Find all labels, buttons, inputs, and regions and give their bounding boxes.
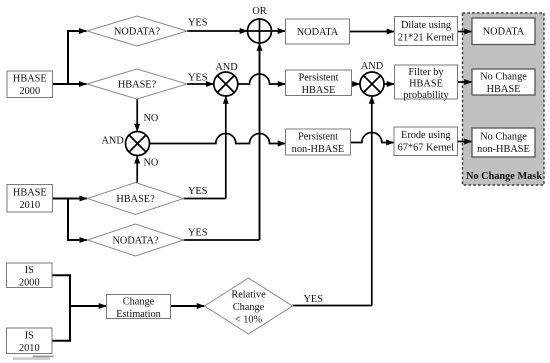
- svg-text:HBASE: HBASE: [409, 78, 443, 89]
- svg-text:non-HBASE: non-HBASE: [477, 144, 530, 155]
- svg-text:HBASE: HBASE: [13, 74, 47, 85]
- svg-text:2000: 2000: [20, 86, 41, 97]
- svg-text:< 10%: < 10%: [235, 315, 263, 326]
- svg-text:NO: NO: [144, 158, 159, 169]
- decision diamond: HBASE? (2010): [88, 183, 184, 215]
- cropped artifact below IS 2010: [13, 356, 54, 360]
- svg-text:Change: Change: [123, 296, 155, 307]
- wire: HBASE? 2010 NO up into AND junction A2: [136, 156, 138, 183]
- result box: No Change non-HBASE: [472, 128, 535, 157]
- process box: Erode using 67*67 Kernel: [394, 127, 458, 156]
- svg-text:IS: IS: [25, 265, 34, 276]
- svg-text:non-HBASE: non-HBASE: [292, 144, 345, 155]
- process box: HBASE 2010: [7, 185, 53, 213]
- wire: OR junction to NODATA box: [272, 30, 286, 32]
- svg-text:2000: 2000: [19, 277, 40, 288]
- wire: vertical from AND junction A3 down to Relative Change YES: [293, 96, 372, 305]
- svg-text:HBASE: HBASE: [13, 188, 47, 199]
- wire: NODATA? 2010 YES feeding OR junction (arrow up): [184, 43, 260, 240]
- svg-text:67*67 Kernel: 67*67 Kernel: [398, 143, 454, 154]
- svg-text:AND: AND: [101, 135, 124, 146]
- svg-text:2010: 2010: [20, 200, 41, 211]
- AND junction A1: [214, 62, 238, 96]
- svg-text:2010: 2010: [19, 343, 40, 354]
- svg-text:NODATA: NODATA: [483, 27, 525, 38]
- svg-text:YES: YES: [188, 228, 208, 239]
- svg-text:YES: YES: [188, 73, 208, 84]
- svg-text:HBASE: HBASE: [302, 85, 336, 96]
- svg-text:Dilate using: Dilate using: [401, 20, 451, 31]
- svg-text:probability: probability: [403, 90, 449, 101]
- svg-text:YES: YES: [188, 18, 208, 29]
- svg-text:21*21 Kernel: 21*21 Kernel: [398, 32, 454, 43]
- svg-text:No Change: No Change: [480, 72, 527, 83]
- wire: vertical from AND junction A1 down to HBASE? 2010 YES: [184, 96, 226, 198]
- AND junction A2: [101, 132, 149, 156]
- process box: Change Estimation: [107, 295, 171, 320]
- wire: Persistent HBASE box to AND junction A3: [352, 83, 360, 85]
- OR junction: [248, 6, 272, 43]
- result box: No Change HBASE: [472, 69, 535, 95]
- wire: Filter box to No Change HBASE box: [458, 81, 472, 83]
- wire: IS 2000 and IS 2010 merge to Change Estimation: [52, 275, 106, 341]
- svg-text:Change: Change: [233, 302, 265, 313]
- process box: NODATA: [286, 19, 350, 44]
- process box: Persistent non-HBASE: [286, 129, 351, 155]
- svg-text:NODATA?: NODATA?: [114, 27, 161, 38]
- svg-text:Filter by: Filter by: [408, 67, 444, 78]
- process box: Dilate using 21*21 Kernel: [395, 17, 458, 46]
- svg-text:NO: NO: [144, 113, 159, 124]
- wire: Dilate box to NODATA (mask) box: [458, 31, 472, 33]
- wire: AND junction A2 to Persistent non-HBASE box (hops over two verticals): [150, 134, 286, 144]
- no-change-mask gray region: [463, 13, 545, 185]
- wire: Erode box to No Change non-HBASE box: [458, 141, 472, 143]
- svg-text:Persistent: Persistent: [298, 72, 338, 83]
- svg-text:Relative: Relative: [231, 290, 266, 301]
- wire: Persistent non-HBASE box to Erode box (hop over A3 feeder): [351, 133, 394, 143]
- wire: NODATA box to Dilate box: [350, 31, 395, 33]
- wire: AND junction A3 to Filter box: [384, 83, 394, 85]
- wire: HBASE 2010 to HBASE? and NODATA? diamonds: [53, 199, 88, 241]
- wire: HBASE 2000 to NODATA? and HBASE? diamonds: [53, 31, 87, 84]
- decision diamond: HBASE? (2000): [87, 69, 187, 99]
- wire: Change Estimation to Relative Change diamond: [171, 305, 205, 307]
- svg-text:YES: YES: [188, 186, 208, 197]
- wire: vertical from OR junction down to NODATA? 2010 YES: [259, 43, 261, 240]
- svg-text:NODATA: NODATA: [297, 27, 339, 38]
- wire: AND junction A1 to Persistent HBASE box (hop over OR feeder): [238, 74, 285, 84]
- wire: NODATA? YES to OR junction: [187, 30, 247, 32]
- wire: HBASE? YES to AND junction A1: [187, 83, 214, 85]
- svg-text:Persistent: Persistent: [298, 132, 338, 143]
- svg-text:YES: YES: [304, 294, 324, 305]
- svg-text:OR: OR: [252, 6, 266, 17]
- svg-text:No Change: No Change: [480, 132, 527, 143]
- decision diamond: NODATA? (2000): [87, 16, 187, 46]
- process box: IS 2000: [7, 263, 53, 288]
- process box: HBASE 2000: [7, 71, 53, 98]
- wire: HBASE? NO down into AND junction A2: [136, 99, 138, 131]
- svg-text:IS: IS: [25, 330, 34, 341]
- svg-text:HBASE: HBASE: [487, 84, 521, 95]
- svg-text:Erode using: Erode using: [401, 130, 450, 141]
- svg-text:No Change Mask: No Change Mask: [466, 171, 542, 182]
- result box: NODATA (mask): [472, 18, 535, 45]
- process box: Filter by HBASE probability: [395, 65, 458, 101]
- process box: IS 2010: [7, 328, 53, 354]
- svg-text:HBASE?: HBASE?: [118, 80, 157, 91]
- AND junction A3: [360, 61, 384, 96]
- svg-text:AND: AND: [215, 62, 238, 73]
- svg-text:NODATA?: NODATA?: [112, 236, 159, 247]
- svg-text:Estimation: Estimation: [116, 309, 161, 320]
- process box: Persistent HBASE: [286, 70, 352, 96]
- svg-text:AND: AND: [361, 61, 384, 72]
- decision diamond: NODATA? (2010): [88, 224, 184, 256]
- decision diamond: Relative Change < 10%: [205, 278, 293, 334]
- svg-text:HBASE?: HBASE?: [116, 194, 155, 205]
